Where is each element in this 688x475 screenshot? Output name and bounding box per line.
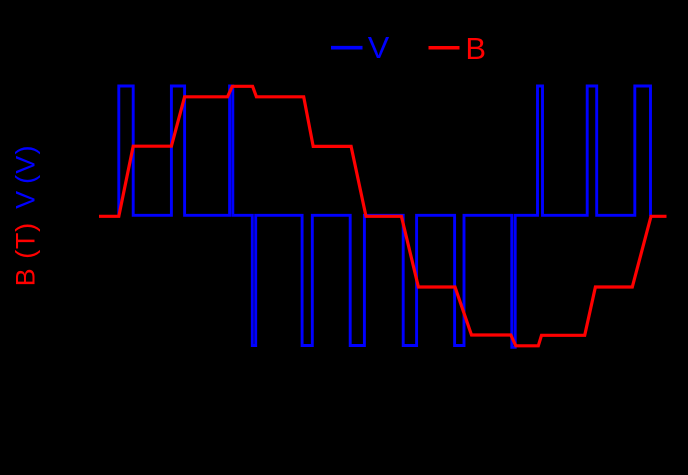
svg-text:B: B bbox=[465, 31, 486, 66]
legend B sample line bbox=[429, 46, 460, 50]
wire V curve (blue PWM voltage waveform) bbox=[119, 86, 651, 347]
svg-text:V: V bbox=[368, 30, 390, 65]
svg-text:B: B bbox=[11, 268, 41, 286]
legend V sample line bbox=[331, 46, 363, 50]
wire B curve (red stepped flux waveform) bbox=[99, 86, 667, 346]
svg-text:(T): (T) bbox=[11, 222, 41, 259]
svg-text:V: V bbox=[11, 191, 41, 209]
svg-text:(V): (V) bbox=[11, 144, 41, 184]
